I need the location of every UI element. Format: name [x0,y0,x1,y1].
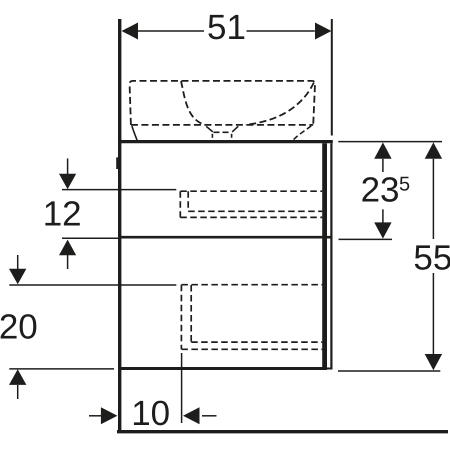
svg-text:10: 10 [131,394,170,433]
svg-text:12: 12 [43,195,82,234]
svg-text:55: 55 [413,238,450,277]
svg-text:5: 5 [399,173,410,195]
svg-text:23: 23 [361,171,400,210]
svg-text:51: 51 [207,8,246,47]
svg-text:20: 20 [0,308,38,347]
